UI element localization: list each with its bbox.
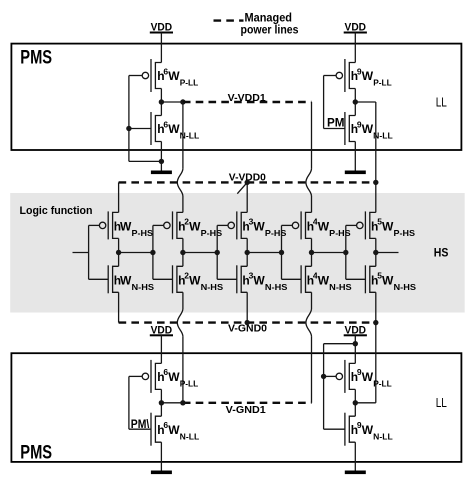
junction stage 4 gate bus <box>279 250 284 255</box>
node stage 2 output junction <box>180 250 185 255</box>
wire stage-4 nmos source to V-GND1 (with hop) <box>311 292 313 309</box>
wire VDD to bottom-left pmos source <box>160 335 162 363</box>
wire gate tie to VDD <box>324 343 356 345</box>
nmos transistor h6W_N-LL (top-left) <box>129 128 151 130</box>
input stub to stage 1 <box>73 252 89 254</box>
svg-text:Logic function: Logic function <box>20 205 93 217</box>
wire stage-2 nmos source to V-GND1 (with hop) <box>182 292 184 309</box>
svg-text:P-LL: P-LL <box>373 78 392 88</box>
pmos transistor h2W_P-HS (stage 2) <box>153 224 164 226</box>
svg-text:P-HS: P-HS <box>394 228 416 238</box>
svg-text:V-GND0: V-GND0 <box>228 324 267 335</box>
wire VDD to M_P-LL6 source <box>160 33 162 63</box>
svg-text:W: W <box>168 69 180 83</box>
pmos transistor hW_P-HS (stage 1) <box>89 224 100 226</box>
wire drop to V-VDD0 <box>375 102 377 182</box>
svg-text:P-HS: P-HS <box>201 228 223 238</box>
svg-text:N-HS: N-HS <box>329 282 352 292</box>
ground bar (top right) <box>345 171 366 175</box>
svg-text:N-HS: N-HS <box>201 282 224 292</box>
wire bottom-right node to drop <box>355 402 376 404</box>
svg-text:W: W <box>253 220 265 234</box>
wire M_P-LL6 drain to V-VDD1 node <box>160 89 162 116</box>
wire nmos source to ground (bottom left) <box>160 442 162 470</box>
svg-text:W: W <box>120 220 132 234</box>
svg-text:W: W <box>382 274 394 288</box>
junction VDD / gate tie (bottom right) <box>353 341 358 346</box>
wire stage 1 pmos source to V-VDD0 <box>118 182 120 212</box>
svg-text:W: W <box>189 220 201 234</box>
svg-text:P-LL: P-LL <box>180 379 199 389</box>
svg-text:HS: HS <box>434 246 449 260</box>
ground bar (bottom left) <box>151 471 172 475</box>
ground bar (top left) <box>151 171 172 175</box>
net V-GND0 (dashed managed power line) <box>119 321 376 323</box>
nmos transistor hW_N-HS (stage 1) <box>89 278 109 280</box>
pmos transistor h9W_P-LL (bottom-right) <box>324 375 337 377</box>
svg-text:W: W <box>318 220 330 234</box>
wire pmos drain to node (bottom right) <box>354 389 356 416</box>
wire nmos source down (top right) <box>354 142 356 171</box>
junction gate bus / pmos gate (bottom right) <box>321 374 326 379</box>
wire stage 5 pmos drain to output node <box>375 238 377 252</box>
svg-text:W: W <box>362 69 374 83</box>
PMS box (bottom) <box>11 353 461 462</box>
junction gate-bus / nmos gate <box>126 126 131 131</box>
wire stage 4 pmos drain to output node <box>311 238 313 252</box>
wire V-VDD1 drop to stage-2 pmos source (with hop) <box>182 102 184 169</box>
wire stage 3 pmos drain to output node <box>246 238 248 252</box>
svg-text:W: W <box>120 274 132 288</box>
wire V-VDD1 drop to stage-4 pmos source (with hop) <box>311 102 313 169</box>
svg-text:W: W <box>189 274 201 288</box>
svg-text:P-LL: P-LL <box>180 78 199 88</box>
junction V-GND0 / stage-3 source <box>245 320 250 325</box>
wire stage 2 output to stage 3 gate bus <box>183 252 217 254</box>
wire stage 3 output to stage 4 gate bus <box>247 252 281 254</box>
svg-text:W: W <box>168 122 180 136</box>
node stage 5 output junction <box>373 250 378 255</box>
wire V-GND1 node to drop <box>161 402 183 404</box>
node stage 3 output junction <box>245 250 250 255</box>
svg-text:PMS: PMS <box>20 48 52 69</box>
svg-text:P-LL: P-LL <box>373 379 392 389</box>
legend dashed-line sample (managed power lines) <box>214 19 244 21</box>
svg-text:N-HS: N-HS <box>394 282 417 292</box>
stage 4 gate bus <box>281 225 283 279</box>
svg-text:PM: PM <box>327 117 345 129</box>
junction stage 3 gate bus <box>215 250 220 255</box>
net V-VDD0 (dashed managed power line) <box>119 181 376 183</box>
wire V-GND0 to bottom-right node <box>375 323 377 403</box>
svg-text:Managed: Managed <box>245 13 293 25</box>
junction V-VDD1 / drop wire <box>180 99 185 104</box>
wire stage 3 pmos source to V-VDD0 <box>246 182 248 212</box>
logic-function region (HS) <box>10 193 465 313</box>
wire stage 5 nmos drain to output node <box>375 253 377 267</box>
wire stage 3 nmos source to V-GND0 <box>246 292 248 322</box>
pmos transistor h3W_P-HS (stage 3) <box>217 224 228 226</box>
junction V-VDD0 / stage-3 source <box>245 180 250 185</box>
wire stage 4 output to stage 5 gate bus <box>312 252 346 254</box>
wire V-VDD1 node to drop <box>161 101 183 103</box>
wire VDD to M_P-LL9 source <box>354 33 356 63</box>
svg-text:W: W <box>253 274 265 288</box>
junction V-GND0 / bottom-right drop <box>373 320 378 325</box>
wire stage 1 pmos drain to output node <box>118 238 120 252</box>
node V-VDD1 junction <box>159 99 164 104</box>
wire M_P-LL9 drain to node <box>354 89 356 116</box>
stage 5 gate bus <box>345 225 347 279</box>
stage 1 gate bus <box>88 225 90 279</box>
pmos transistor h6W_P-LL (bottom-left) <box>129 375 142 377</box>
node stage 4 output junction <box>309 250 314 255</box>
wire stage 2 pmos drain to output node <box>182 238 184 252</box>
junction V-VDD0 / stage-5 source <box>373 180 378 185</box>
svg-text:W: W <box>382 220 394 234</box>
wire stage 3 nmos drain to output node <box>246 253 248 267</box>
wire stage 1 output to stage 2 gate bus <box>119 252 153 254</box>
node stage 1 output junction <box>116 250 121 255</box>
nmos transistor h9W_N-LL (top-right) <box>324 128 345 130</box>
wire stage 5 pmos source (from V-VDD0) <box>375 182 377 212</box>
junction source-tie <box>159 159 164 164</box>
wire gate-bus tie to source <box>129 160 162 162</box>
svg-text:P-HS: P-HS <box>329 228 351 238</box>
svg-text:V-VDD1: V-VDD1 <box>228 93 266 104</box>
nmos transistor h2W_N-HS (stage 2) <box>153 278 173 280</box>
pmos transistor h6W_P-LL (top-left) <box>129 75 142 77</box>
svg-text:N-LL: N-LL <box>180 431 200 441</box>
junction stage 2 gate bus <box>150 250 155 255</box>
wire stage 1 nmos drain to output node <box>118 253 120 267</box>
junction stage 5 gate bus <box>343 250 348 255</box>
pmos transistor h9W_P-LL (top-right) <box>324 75 337 77</box>
leader line at V-VDD0 junction <box>237 182 247 193</box>
nmos transistor h9W_N-LL (bottom-right) <box>324 428 345 430</box>
svg-text:W: W <box>362 370 374 384</box>
stage 2 gate bus <box>152 225 154 279</box>
svg-text:P-HS: P-HS <box>132 228 154 238</box>
net V-GND1 (dashed managed power line) <box>183 402 312 404</box>
svg-text:N-LL: N-LL <box>373 431 393 441</box>
nmos transistor h4W_N-HS (stage 4) <box>282 278 302 280</box>
wire VDD down to pmos source (bottom right) <box>354 335 356 363</box>
PMS box (top) <box>11 44 461 150</box>
wire pmos drain to V-GND1 node <box>160 389 162 416</box>
nmos transistor h6W_N-LL (bottom-left) <box>129 428 151 430</box>
net V-VDD1 (dashed managed power line) <box>183 101 312 103</box>
svg-text:power lines: power lines <box>241 24 299 36</box>
svg-text:W: W <box>168 370 180 384</box>
gate bus wire (bottom-right pair) <box>323 344 325 430</box>
svg-text:N-HS: N-HS <box>265 282 288 292</box>
svg-text:W: W <box>362 423 374 437</box>
node V-GND1 junction <box>159 400 164 405</box>
node (top-right pair output) junction <box>353 99 358 104</box>
wire stage 4 nmos drain to output node <box>311 253 313 267</box>
svg-text:P-HS: P-HS <box>265 228 287 238</box>
pmos transistor h4W_P-HS (stage 4) <box>282 224 293 226</box>
stage 3 gate bus <box>216 225 218 279</box>
wire stage 2 nmos drain to output node <box>182 253 184 267</box>
svg-text:W: W <box>168 423 180 437</box>
gate bus wire PM-bar (bottom-left pair) <box>128 376 130 429</box>
wire stage 5 nmos source (to V-GND0) <box>375 292 377 322</box>
gate bus wire PM (top-right pair) <box>323 76 325 129</box>
pmos transistor h5W_P-HS (stage 5) <box>346 224 357 226</box>
svg-text:N-HS: N-HS <box>132 282 155 292</box>
node (bottom-right pair output) junction <box>353 400 358 405</box>
wire nmos source to ground (bottom right) <box>354 442 356 470</box>
nmos transistor h3W_N-HS (stage 3) <box>217 278 237 280</box>
svg-text:LL: LL <box>436 396 447 410</box>
nmos transistor h5W_N-HS (stage 5) <box>346 278 366 280</box>
svg-text:W: W <box>362 122 374 136</box>
wire top-right node to V-VDD0 drop <box>355 101 376 103</box>
svg-text:PMS: PMS <box>20 442 52 463</box>
output stub from stage 5 <box>376 252 399 254</box>
ground bar (bottom right) <box>345 471 366 475</box>
svg-text:LL: LL <box>436 95 447 109</box>
junction V-GND1 / drop wire <box>180 400 185 405</box>
svg-text:V-GND1: V-GND1 <box>226 405 266 416</box>
gate bus wire (top-left pair) <box>128 76 130 162</box>
svg-text:W: W <box>318 274 330 288</box>
wire stage 1 nmos source to V-GND0 <box>118 292 120 322</box>
wire nmos source down <box>160 142 162 171</box>
